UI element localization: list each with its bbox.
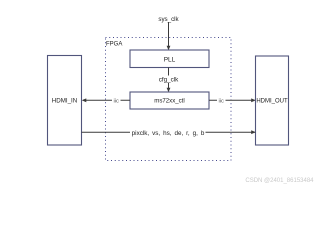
net pixclk,vs,hs,de,r,g,b label xyxy=(130,129,206,138)
svg-text:HDMI_OUT: HDMI_OUT xyxy=(256,98,288,104)
net iic label (right) xyxy=(217,97,226,104)
svg-text:CSDN @2401_86153484: CSDN @2401_86153484 xyxy=(245,178,314,184)
svg-text:PLL: PLL xyxy=(164,56,176,63)
svg-text:FPGA: FPGA xyxy=(106,42,122,48)
block PLL xyxy=(130,50,209,68)
svg-text:pixclk, vs, hs, de, r, g,: pixclk, vs, hs, de, r, g, b xyxy=(132,130,205,137)
svg-text:sys_clk: sys_clk xyxy=(158,16,179,23)
wire cfg_clk PLL to ms72xx_ctl (arrow down) xyxy=(167,68,171,93)
wire iic ms72xx_ctl to HDMI_IN (arrow left) xyxy=(82,98,130,102)
svg-text:ms72xx_ctl: ms72xx_ctl xyxy=(154,98,184,105)
FPGA boundary (dotted) xyxy=(106,38,232,161)
svg-text:HDMI_IN: HDMI_IN xyxy=(52,98,77,105)
svg-text:iic: iic xyxy=(113,98,119,104)
block ms72xx_ctl xyxy=(130,92,209,109)
net cfg_clk label xyxy=(157,76,180,84)
block HDMI_OUT xyxy=(256,56,289,145)
wire sys_clk into PLL (arrow down) xyxy=(167,22,171,50)
svg-text:cfg_clk: cfg_clk xyxy=(159,77,179,84)
svg-text:iic: iic xyxy=(218,98,224,104)
wire pixclk bus HDMI_IN to HDMI_OUT (arrow right) xyxy=(82,130,256,134)
wire iic ms72xx_ctl to HDMI_OUT (arrow right) xyxy=(209,98,256,102)
net iic label (left) xyxy=(112,97,121,104)
block HDMI_IN xyxy=(48,56,82,146)
